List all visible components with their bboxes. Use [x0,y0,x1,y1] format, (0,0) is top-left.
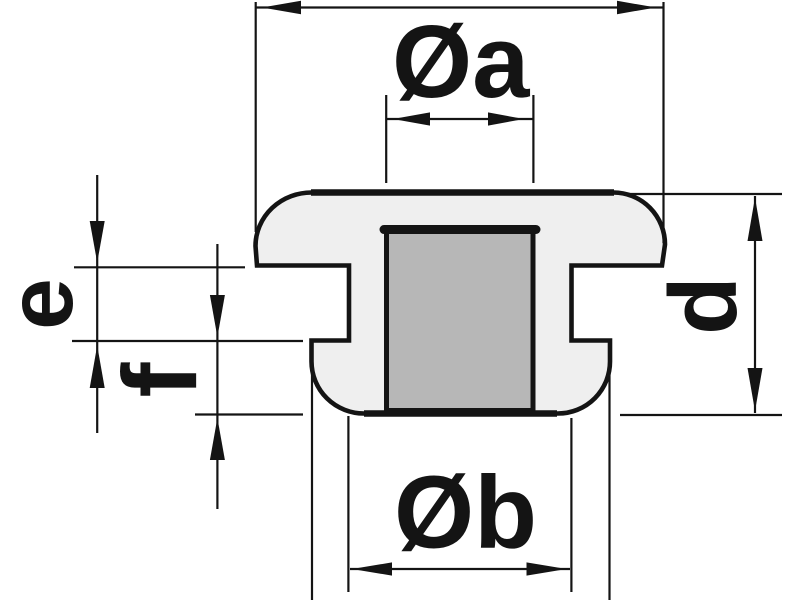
d dimension bottom line [620,414,782,416]
Oa arrow right [488,112,524,125]
svg-text:Øb: Øb [394,455,537,570]
bottom ext line right [608,345,610,600]
svg-text:e: e [0,278,92,330]
f dimension vertical line [216,244,218,509]
svg-text:f: f [102,361,219,397]
svg-text:Øa: Øa [392,4,530,119]
e dimension upper line [74,266,245,268]
e dimension vertical line [96,175,98,433]
top dim arrow left [262,1,301,14]
d dimension top line [623,193,782,195]
core top edge [384,225,536,234]
Ob arrow right [527,562,567,575]
Ob ext line left [347,416,349,592]
f arrow down [210,295,225,337]
d dimension vertical line [754,196,756,413]
grommet body outline [256,192,666,413]
Oa ext line left [385,95,387,183]
Ob ext line right [570,418,572,592]
d arrow up [748,198,763,242]
core bottom edge [385,408,534,415]
svg-text:d: d [650,276,757,335]
bottom ext line left [311,345,313,600]
Ob dimension line [350,568,570,570]
e arrow up [90,346,105,389]
inner core rectangle [388,231,532,411]
top dimension line [256,6,664,8]
d arrow down [748,368,763,411]
e arrow down [90,221,105,263]
f dimension bottom line [195,413,303,415]
Oa arrow left [393,112,430,125]
Oa ext line right [532,95,534,183]
top ext line left [255,2,257,232]
grommet bottom edge (thicker) [364,410,557,417]
Ob arrow left [352,562,392,575]
Oa dimension line [387,118,533,120]
grommet top edge (thicker) [311,189,614,196]
top ext line right [662,2,664,243]
e dimension lower line [72,340,303,342]
core left edge [384,226,389,413]
core right edge [531,226,536,413]
f arrow up [210,418,225,460]
top dim arrow right [617,1,656,14]
